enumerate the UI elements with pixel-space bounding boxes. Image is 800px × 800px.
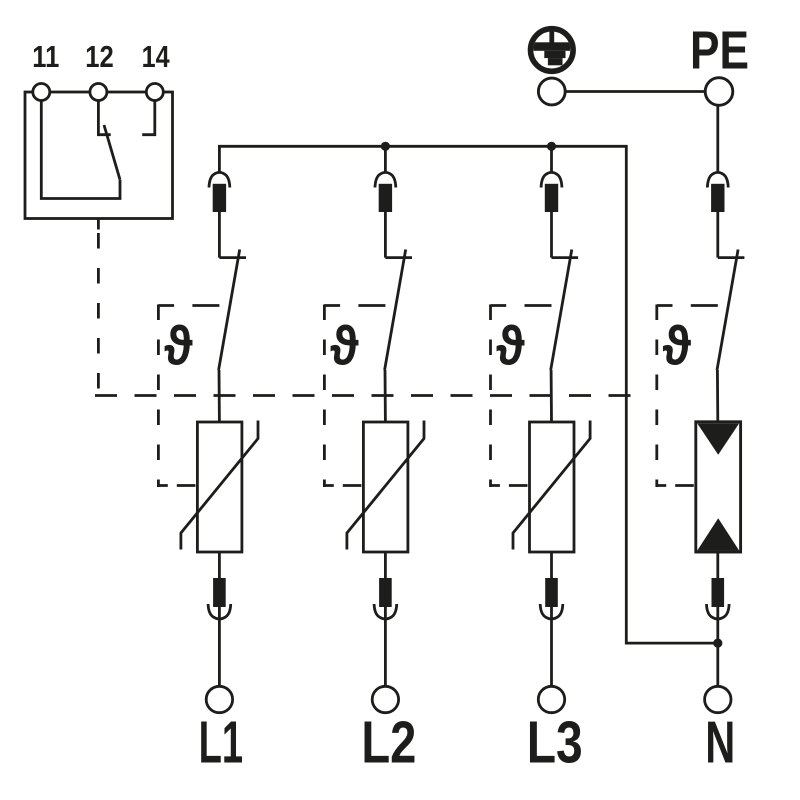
svg-text:L2: L2 — [361, 710, 416, 776]
svg-text:N: N — [705, 710, 735, 776]
svg-text:12: 12 — [85, 40, 114, 74]
svg-text:14: 14 — [142, 40, 170, 74]
svg-text:L1: L1 — [199, 710, 244, 776]
svg-text:L3: L3 — [527, 710, 583, 776]
svg-text:11: 11 — [32, 40, 59, 74]
svg-text:PE: PE — [690, 20, 749, 80]
